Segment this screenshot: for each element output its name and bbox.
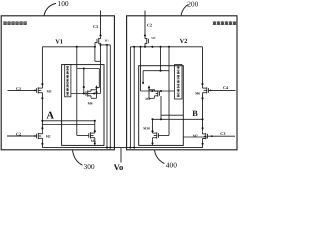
svg-text:M6: M6 bbox=[195, 92, 200, 96]
svg-text:300: 300 bbox=[84, 162, 95, 170]
svg-text:B: B bbox=[192, 109, 198, 118]
svg-text:V1: V1 bbox=[55, 39, 63, 46]
svg-text:M10: M10 bbox=[143, 126, 150, 130]
svg-text:A: A bbox=[46, 111, 54, 122]
svg-text:C2: C2 bbox=[147, 23, 152, 28]
svg-text:M2: M2 bbox=[46, 134, 51, 138]
svg-text:C3: C3 bbox=[220, 131, 225, 136]
svg-text:Vo: Vo bbox=[114, 162, 124, 170]
svg-text:200: 200 bbox=[187, 0, 198, 9]
svg-text:C4: C4 bbox=[223, 85, 229, 90]
svg-text:400: 400 bbox=[166, 161, 177, 170]
svg-text:M7: M7 bbox=[193, 134, 198, 138]
svg-text:C3: C3 bbox=[93, 24, 98, 29]
svg-text:M4: M4 bbox=[88, 102, 93, 106]
svg-text:V2: V2 bbox=[180, 38, 188, 45]
svg-text:100: 100 bbox=[58, 0, 69, 8]
svg-text:M1: M1 bbox=[105, 39, 110, 43]
svg-text:M3: M3 bbox=[47, 90, 52, 94]
svg-text:M8: M8 bbox=[151, 36, 156, 40]
svg-text:M9: M9 bbox=[145, 97, 150, 101]
